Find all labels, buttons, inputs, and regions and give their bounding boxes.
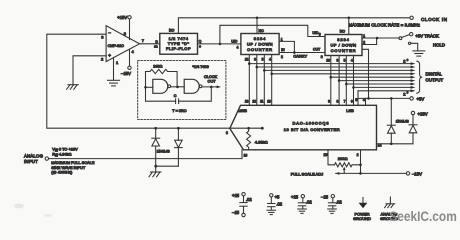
svg-text:+5: +5 <box>275 194 280 199</box>
diode D4 1N4148 <box>409 115 417 144</box>
svg-text:−15: −15 <box>321 194 329 199</box>
ground analog symbol <box>380 197 398 221</box>
label Rin <box>52 151 71 157</box>
svg-text:HOLD: HOLD <box>433 42 445 47</box>
ground chassis input clamp <box>149 172 161 177</box>
oscillator dashed box <box>138 61 226 120</box>
switch S1 track/hold <box>399 33 445 51</box>
svg-text:OUT: OUT <box>313 47 320 51</box>
node carry junction <box>293 51 296 54</box>
svg-text:−: − <box>108 30 111 35</box>
svg-text:U/D: U/D <box>231 40 238 44</box>
svg-text:1N4148: 1N4148 <box>396 119 409 123</box>
ground power symbol <box>353 198 371 222</box>
wire counter U2 to track-hold switch <box>362 34 399 45</box>
label maximum full scale <box>51 160 94 174</box>
svg-text:9: 9 <box>328 100 330 104</box>
wire Q to up/down <box>198 43 241 45</box>
svg-text:1N4148: 1N4148 <box>157 149 170 153</box>
nodes summing line <box>247 127 263 130</box>
svg-text:1: 1 <box>116 60 119 65</box>
svg-text:+15V: +15V <box>418 111 428 116</box>
svg-text:15: 15 <box>324 153 328 157</box>
svg-text:10: 10 <box>267 100 271 104</box>
svg-text:MAXIMUM CLOCK RATE = 3.0MHz: MAXIMUM CLOCK RATE = 3.0MHz <box>349 22 421 27</box>
svg-text:4: 4 <box>363 98 365 102</box>
svg-text:CLOCK IN: CLOCK IN <box>421 17 448 22</box>
arrows digital output <box>411 62 416 92</box>
svg-text:13: 13 <box>245 100 249 104</box>
svg-text:5: 5 <box>355 98 357 102</box>
svg-text:+15: +15 <box>291 194 299 199</box>
svg-text:OUTPUT: OUTPUT <box>426 77 444 82</box>
svg-text:2: 2 <box>281 55 283 59</box>
wire carry net <box>279 41 325 52</box>
wire +5V rail <box>358 91 410 106</box>
terminal +5V <box>410 97 424 102</box>
svg-text:4: 4 <box>351 58 353 62</box>
svg-text:4: 4 <box>269 57 271 61</box>
wire DAC pin 15 to pot <box>324 150 335 165</box>
svg-text:CMP-01C: CMP-01C <box>108 44 125 48</box>
counter U1 8284 <box>241 34 279 55</box>
wire full scale adj line <box>335 172 406 175</box>
pin Q 9 labels <box>199 40 202 49</box>
svg-text:8: 8 <box>336 100 338 104</box>
brace digital output <box>417 61 422 93</box>
capacitor C2 bypass +15/-15 <box>232 193 252 217</box>
svg-text:C: C <box>174 94 177 98</box>
label MSB <box>238 108 247 113</box>
label 2^0 <box>403 58 408 64</box>
terminal CLOCK IN <box>410 16 448 22</box>
svg-text:+15: +15 <box>232 193 240 198</box>
svg-text:4: 4 <box>132 49 135 54</box>
wire up/down rail to counter U2 <box>220 25 325 44</box>
svg-text:+5V: +5V <box>417 97 425 102</box>
pin 3 label <box>101 35 104 40</box>
svg-text:GROUND: GROUND <box>353 216 371 221</box>
label U/D counter U1 <box>231 40 238 50</box>
counter U2 8284 <box>325 35 362 56</box>
svg-text:FULL SCALE ADJ: FULL SCALE ADJ <box>291 172 323 177</box>
svg-text:12: 12 <box>245 57 249 61</box>
wire digital output bus lines <box>249 64 411 91</box>
svg-text:UP / DOWN: UP / DOWN <box>331 42 357 47</box>
svg-text:.02: .02 <box>306 199 312 204</box>
flip-flop U4 1/2 7474 <box>160 33 198 54</box>
svg-text:12: 12 <box>252 100 256 104</box>
counter U2 output pins to DAC <box>331 56 354 106</box>
ground comparator pin 1 <box>108 58 120 86</box>
label LSB <box>346 108 354 113</box>
svg-text:12: 12 <box>154 45 158 49</box>
label 1N4148 dac <box>396 119 409 123</box>
pin 7 label <box>142 38 145 43</box>
svg-text:1: 1 <box>363 34 365 38</box>
label pin 1 counter U1 <box>281 38 283 42</box>
wire gate1 input <box>144 86 153 89</box>
svg-text:DIGITAL: DIGITAL <box>426 71 443 76</box>
label 1/4 7400 <box>193 65 209 69</box>
svg-text:NC: NC <box>169 29 175 33</box>
scan smudge 2 <box>44 214 52 217</box>
svg-text:+: + <box>108 53 111 58</box>
label DAC pin 3 <box>226 131 228 135</box>
svg-text:5: 5 <box>262 57 264 61</box>
pin 2 label <box>101 57 104 62</box>
scan smudge 1 <box>14 204 24 209</box>
capacitor C4 bypass +15 <box>291 194 312 213</box>
potentiometer R3 200 ohm <box>335 156 362 173</box>
svg-text:3: 3 <box>226 131 228 135</box>
capacitor C1 timing <box>146 87 212 104</box>
svg-text:2: 2 <box>101 57 104 62</box>
svg-text:0: 0 <box>407 58 409 62</box>
svg-text:6: 6 <box>319 33 321 37</box>
label IN pin 2 <box>281 48 285 59</box>
svg-text:IN: IN <box>281 48 285 52</box>
svg-text:4: 4 <box>237 46 239 50</box>
svg-text:CARRY: CARRY <box>293 55 307 59</box>
label Vin <box>52 146 78 152</box>
svg-text:UP / DOWN: UP / DOWN <box>247 41 273 46</box>
label CARRY <box>293 55 307 59</box>
node switch wire junction <box>376 37 379 40</box>
ground chassis at comparator +input <box>67 85 79 90</box>
svg-text:NC: NC <box>259 29 265 33</box>
svg-text:240Ω: 240Ω <box>153 64 162 68</box>
svg-text:−15V: −15V <box>121 71 131 76</box>
resistor R2 240 ohm feedback <box>146 64 178 87</box>
svg-text:10: 10 <box>326 58 330 62</box>
wire DAC pin 14 <box>377 143 414 148</box>
label T=3RC <box>172 109 186 113</box>
svg-text:DAC-100CCQ3: DAC-100CCQ3 <box>293 121 330 126</box>
power -15V comparator pin 4 <box>121 49 135 76</box>
terminal -15V full scale <box>406 172 422 177</box>
svg-text:+15V: +15V <box>117 15 127 20</box>
wire gate1 out to gate2 <box>171 86 185 89</box>
node Q junction <box>219 43 222 46</box>
labels counter U2 bottom pins <box>326 58 353 62</box>
svg-text:9: 9 <box>199 44 201 48</box>
node +5V rail diode tap <box>390 97 393 100</box>
svg-text:COUNTER: COUNTER <box>331 48 357 53</box>
watermark <box>389 209 457 224</box>
svg-text:5: 5 <box>344 58 346 62</box>
label NC flip-flop <box>169 29 175 33</box>
svg-text:CLOCK: CLOCK <box>204 75 218 79</box>
svg-text:7: 7 <box>142 38 145 43</box>
label NC counter U1 <box>259 29 265 33</box>
nand gate G2 <box>184 79 202 93</box>
terminal +15V dac clamp <box>411 111 427 116</box>
node clock rail to counter U1 <box>256 17 259 34</box>
wire DAC pin4 to rail <box>365 98 367 105</box>
wire comparator +input to ground <box>73 56 106 85</box>
svg-text:NC: NC <box>340 30 346 34</box>
wire clamp to ground <box>154 165 178 172</box>
svg-text:6: 6 <box>351 100 353 104</box>
label 2^9 <box>403 91 408 97</box>
svg-text:SeekIC.com: SeekIC.com <box>389 209 457 224</box>
svg-text:LSB: LSB <box>346 108 354 113</box>
svg-text:11: 11 <box>260 100 264 104</box>
label maximum clock rate <box>349 22 421 27</box>
capacitor C5 bypass -15 <box>321 194 342 213</box>
label CLOCK OUT <box>204 75 218 84</box>
svg-text:1: 1 <box>281 38 283 42</box>
label 1N4148 input <box>157 149 170 153</box>
resistor R1 4.88k <box>247 128 268 150</box>
diode D1 input clamp <box>152 127 160 166</box>
labels DAC top pins left <box>245 100 271 104</box>
svg-text:3: 3 <box>321 55 323 59</box>
svg-text:3: 3 <box>101 35 104 40</box>
diode D3 1N4148 <box>387 98 395 143</box>
svg-text:9: 9 <box>336 58 338 62</box>
label OUT pin 3 <box>313 47 323 58</box>
label U/D counter U2 <box>312 31 320 37</box>
labels counter U1 bottom pins <box>245 57 271 61</box>
svg-text:7: 7 <box>344 100 346 104</box>
svg-text:FLIP-FLOP: FLIP-FLOP <box>166 46 191 51</box>
ground switch hold <box>413 51 425 56</box>
node +5V rail counter tap <box>367 97 370 100</box>
wire clock out with arrow <box>202 86 221 89</box>
svg-text:MSB: MSB <box>238 108 247 113</box>
svg-text:T = 3RC: T = 3RC <box>172 109 186 113</box>
svg-text:10 BIT D/A CONVERTER: 10 BIT D/A CONVERTER <box>284 127 340 132</box>
wire comparator output to flip-flop D <box>140 43 160 45</box>
svg-text:.02: .02 <box>276 202 282 207</box>
svg-text:2: 2 <box>357 153 359 157</box>
svg-text:(@ 4000Hz): (@ 4000Hz) <box>51 170 73 175</box>
svg-text:2: 2 <box>363 41 365 45</box>
node clock rail to counter U2 <box>348 17 351 35</box>
DAC U5 DAC-100CCQ3 <box>230 105 377 150</box>
svg-text:ANALOG: ANALOG <box>24 153 44 158</box>
wire comparator -input to summing node <box>47 34 262 128</box>
counter U1 output pins to DAC <box>249 55 271 106</box>
label pin 16 <box>244 153 248 157</box>
label DIGITAL OUTPUT <box>426 71 444 82</box>
svg-text:*1/4 7400: *1/4 7400 <box>193 65 209 69</box>
capacitor C3 bypass +5 <box>267 194 283 215</box>
svg-text:.02: .02 <box>246 197 252 202</box>
wire clock rail top <box>178 18 409 34</box>
pin D 12 labels <box>154 40 158 49</box>
wire DAC pin 2 down <box>357 150 361 174</box>
diode D2 input clamp <box>175 127 183 166</box>
terminal analog input <box>24 153 49 163</box>
svg-text:9: 9 <box>254 57 256 61</box>
nodes counter U1 bus taps <box>248 62 273 75</box>
svg-text:OUT: OUT <box>208 80 217 84</box>
label NC counter U2 <box>340 30 346 34</box>
svg-text:INPUT: INPUT <box>24 159 38 164</box>
wire analog input line <box>49 150 243 159</box>
nodes counter U2 bus taps <box>330 76 355 89</box>
svg-text:14: 14 <box>378 143 382 147</box>
svg-text:Q: Q <box>199 40 202 44</box>
nand gate G1 <box>153 79 171 93</box>
svg-text:16: 16 <box>244 153 248 157</box>
svg-text:200Ω: 200Ω <box>338 156 348 161</box>
svg-text:4.88kΩ: 4.88kΩ <box>255 140 268 145</box>
svg-text:+5V TRACK: +5V TRACK <box>415 34 439 39</box>
op-amp U3 CMP-01C comparator <box>106 26 139 62</box>
svg-text:−15V: −15V <box>412 172 422 177</box>
power +15V comparator <box>117 15 131 40</box>
wire counter U2 pin to +5V rail <box>362 49 369 98</box>
label FULL SCALE ADJ <box>291 172 323 177</box>
labels DAC top pins right <box>328 98 365 104</box>
svg-text:.02: .02 <box>336 199 342 204</box>
svg-text:IN: IN <box>55 153 58 157</box>
svg-text:COUNTER: COUNTER <box>247 47 273 52</box>
svg-text:−15: −15 <box>232 210 240 215</box>
